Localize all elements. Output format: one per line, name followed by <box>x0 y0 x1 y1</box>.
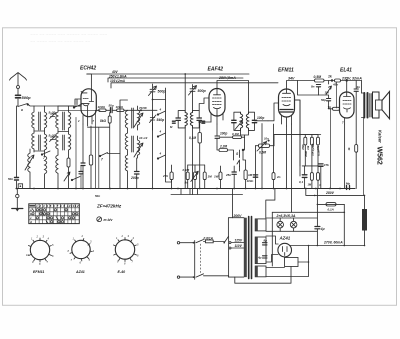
antenna <box>10 73 27 86</box>
filter cap 4u on output <box>315 227 320 229</box>
svg-text:500p: 500p <box>198 89 207 93</box>
G_BOTTOM <box>12 184 355 274</box>
secondary winding box 3 (heater) <box>255 266 266 277</box>
svg-text:4: 4 <box>159 108 162 112</box>
EFM11 target band <box>280 110 293 113</box>
tuning gang cap 1 (osc) 500p <box>150 84 155 130</box>
socket EFM11 circle <box>30 240 49 259</box>
osc coil winding 1 <box>125 110 127 133</box>
svg-text:350k: 350k <box>304 151 308 157</box>
svg-text:8μ: 8μ <box>264 239 268 243</box>
tube ECH42 envelope <box>81 89 96 117</box>
cap 4u left upper <box>263 243 268 245</box>
trimmer cap 5-20 lower <box>50 136 57 142</box>
coil T1 right winding <box>45 106 47 134</box>
svg-text:50n: 50n <box>95 194 100 198</box>
svg-text:~~ ~~~~ ~~~ ~~ ~~~ ~~~~ ~~: ~~ ~~~~ ~~~ ~~ ~~~ ~~~~ ~~ <box>30 39 90 44</box>
hum resistor box <box>285 258 299 267</box>
EAF42 bottom stubs <box>211 113 223 124</box>
EFM11 grids <box>282 98 291 102</box>
IF2 bottom wire <box>241 130 249 135</box>
svg-text:27k: 27k <box>162 174 168 178</box>
svg-text:m b/v: m b/v <box>104 218 114 222</box>
table column lines <box>36 204 76 224</box>
row tie wire <box>188 164 205 166</box>
EL41 anode <box>344 92 351 97</box>
small cap blob bottom <box>79 172 83 174</box>
svg-text:1M: 1M <box>325 91 330 95</box>
EL41 cathode wire down <box>344 124 346 189</box>
svg-text:350k: 350k <box>301 144 305 150</box>
svg-text:101V,2mA: 101V,2mA <box>110 79 126 83</box>
pot 0.5M diag <box>259 144 270 147</box>
input top rail <box>28 104 82 106</box>
top bus 101V <box>111 83 278 88</box>
tone switch S <box>237 156 240 167</box>
resistor 0.5M top row <box>315 79 325 82</box>
primary left side <box>228 237 230 278</box>
svg-text:EL41: EL41 <box>340 68 352 74</box>
antenna coil T1 primary <box>32 106 34 133</box>
socket AZ41 pin numbers <box>68 234 95 265</box>
IF2 coil b <box>246 112 248 130</box>
svg-text:p: p <box>319 184 322 187</box>
ballast resistor bar <box>362 209 367 231</box>
bleedthrough ghost text <box>30 32 107 44</box>
wire fuse down <box>343 204 345 245</box>
ground connector circle <box>16 189 18 195</box>
transformer core T1 <box>39 112 41 150</box>
ECH42 top stub to HT <box>87 74 92 89</box>
tube EAF42 envelope <box>209 89 225 117</box>
wire IF2 to EFM11 grid <box>255 120 269 122</box>
svg-text:50n: 50n <box>8 177 13 181</box>
tube EL41 envelope <box>340 92 355 118</box>
svg-text:100p: 100p <box>220 132 227 136</box>
EFM11 cathode <box>283 105 290 106</box>
svg-text:1k: 1k <box>347 147 351 151</box>
lamp feed vertical <box>271 212 273 266</box>
trimmer cap 5-20 upper <box>50 113 57 119</box>
svg-text:31k: 31k <box>306 145 310 150</box>
switch contact 7 mid <box>100 153 120 157</box>
band switch contact 4b <box>158 133 166 137</box>
G_TOPLEFT <box>8 66 278 190</box>
bus end contact box <box>18 184 22 189</box>
switch contact b <box>74 104 82 108</box>
svg-text:5÷20: 5÷20 <box>49 111 56 115</box>
G_OSC <box>120 73 206 194</box>
socket E-40 circle <box>115 240 134 259</box>
resistor 1M vertical right <box>244 170 247 180</box>
AZ41 left wire from HV bottom <box>266 255 278 263</box>
svg-text:4: 4 <box>159 130 162 134</box>
EFM11 top stub <box>287 81 315 90</box>
mains cord bottom <box>180 276 195 278</box>
svg-text:8n: 8n <box>311 85 315 89</box>
heater winding wires <box>266 262 309 277</box>
svg-text:270V, 60mA: 270V, 60mA <box>323 241 343 245</box>
heater return loop <box>235 267 291 284</box>
coil block 2 winding A <box>56 106 58 133</box>
speaker magnet <box>376 100 383 110</box>
svg-text:2n: 2n <box>276 175 281 179</box>
transformer connecting wires <box>362 93 365 118</box>
cap 8n <box>316 85 320 87</box>
ECH42 cathode resistor <box>89 155 92 165</box>
svg-text:0,1A: 0,1A <box>328 207 334 211</box>
ECH42 grid squiggle <box>83 98 88 100</box>
wire filter cap <box>316 189 318 246</box>
svg-text:5÷20: 5÷20 <box>49 134 56 138</box>
secondary bus <box>171 189 243 195</box>
wire ballast top <box>364 195 366 209</box>
G_RIGHT <box>247 68 390 213</box>
AZ41 left wire from HV top <box>266 236 278 244</box>
svg-text:d: d <box>30 220 32 224</box>
AZ41 cathode output wire 270V <box>290 245 365 247</box>
G_POWER <box>177 182 367 284</box>
svg-text:4μ: 4μ <box>257 256 262 260</box>
svg-text:10n: 10n <box>264 137 269 141</box>
tap 110V <box>231 247 244 249</box>
wire top row <box>324 80 335 82</box>
svg-text:5n: 5n <box>185 181 189 185</box>
svg-text:1M: 1M <box>208 175 213 179</box>
svg-text:100p: 100p <box>257 116 264 120</box>
svg-text:~~~ ~~ ~~~~ ~~~ ~~~~~ ~~ ~~~~: ~~~ ~~ ~~~~ ~~~ ~~~~~ ~~ ~~~~ ~~~ <box>30 32 107 37</box>
svg-text:50p: 50p <box>109 104 114 108</box>
switch a <box>18 104 28 107</box>
svg-text:Kaiser: Kaiser <box>377 130 382 143</box>
wire antenna to cap <box>17 89 19 95</box>
switch contact 7 <box>42 151 50 155</box>
svg-text:7: 7 <box>101 158 103 162</box>
svg-text:1 2 3 4 5 6 7 8 9 101112: 1 2 3 4 5 6 7 8 9 101112 <box>36 204 79 208</box>
IF2 right unit frame <box>249 112 255 130</box>
IF2 left unit frame <box>234 112 241 130</box>
IF1 left cap <box>176 118 180 120</box>
osc coil winding 2 <box>125 133 127 155</box>
svg-text:125V: 125V <box>235 239 243 243</box>
cathode resistor pill on 356 line <box>355 145 358 153</box>
wire ballast to 270V <box>364 231 366 246</box>
svg-text:34V: 34V <box>288 77 295 81</box>
IF1 M mark right <box>202 121 205 123</box>
cap 50p grid row <box>110 108 112 113</box>
EL41 cathode <box>344 108 351 112</box>
svg-text:Mp: Mp <box>346 182 350 186</box>
speaker frame <box>373 92 380 118</box>
svg-text:100Ω: 100Ω <box>116 105 124 109</box>
svg-text:EFM11: EFM11 <box>278 68 294 74</box>
EAF42 left stub <box>199 98 209 111</box>
grid leak vertical <box>330 109 332 189</box>
svg-text:EAF42: EAF42 <box>208 67 224 73</box>
svg-text:60k: 60k <box>316 145 320 150</box>
resistor 1k top <box>335 79 341 82</box>
svg-text:250V,5mA: 250V,5mA <box>218 76 236 80</box>
ECH42 anode line <box>89 89 93 102</box>
antenna coil T1 secondary <box>32 133 34 152</box>
svg-text:4μ: 4μ <box>320 227 325 231</box>
top bus 40V <box>87 73 249 75</box>
heater jog wire from bus <box>266 189 275 219</box>
svg-text:0,5M: 0,5M <box>259 151 266 155</box>
coil T1 right winding 2 <box>45 134 47 156</box>
junction dots power <box>364 245 366 247</box>
socket E-40 pins <box>114 238 137 262</box>
resistor pill D <box>219 172 222 180</box>
IF1 primary feed <box>184 74 186 111</box>
lamp circuit bottom wire <box>266 230 317 232</box>
speaker horn <box>382 92 390 119</box>
wire 200V tap to bus <box>232 195 234 218</box>
svg-text:280V: 280V <box>325 191 335 195</box>
resistor 350k <box>304 137 307 145</box>
cap 25n vertical <box>232 172 236 174</box>
EFM11 bottom stubs <box>282 116 292 127</box>
osc coil winding 3 <box>125 155 127 189</box>
IF1 coil b <box>190 111 192 128</box>
svg-text:70/48: 70/48 <box>139 106 147 110</box>
HT wire down to transformer <box>361 81 363 94</box>
secondary winding box 1 (6.3V) <box>255 219 266 231</box>
wire fuse to voltage switch <box>213 241 224 243</box>
svg-text:47k: 47k <box>323 163 329 167</box>
top bus 250V <box>108 78 243 82</box>
capacitor left column bottom <box>15 178 19 181</box>
main ground bus <box>16 188 355 190</box>
svg-text:2×6,3V/0,3A: 2×6,3V/0,3A <box>276 214 296 218</box>
svg-text:0,1: 0,1 <box>299 180 304 184</box>
svg-text:7: 7 <box>43 156 45 160</box>
socket E-40 pin numbers <box>116 234 139 266</box>
lamp circuit top wire <box>266 217 317 219</box>
ECH42 cathode network cap <box>81 163 85 166</box>
svg-text:10÷13: 10÷13 <box>139 136 148 140</box>
voltage selector switch <box>224 237 228 243</box>
osc trimmer arrow 2 <box>134 143 143 157</box>
fuse 0,1A wire <box>317 203 344 205</box>
cap 4u left lower <box>263 256 268 258</box>
socket AZ41 circle <box>72 240 90 258</box>
ground earth symbol <box>16 198 18 209</box>
pill 2n EFM <box>272 173 275 180</box>
resistor 1k grid EL41 <box>333 107 340 110</box>
cap 100n on wire <box>253 175 257 177</box>
switch coupling dashed link <box>200 244 202 273</box>
band switch contact 4c <box>158 155 166 159</box>
AZ41 anode plates <box>283 247 288 256</box>
small pot arrow bottom <box>64 172 70 181</box>
lower pill 0.1M <box>317 173 320 181</box>
rectifier AZ41 circle <box>278 243 292 257</box>
wire x291.5 heater <box>291 124 293 212</box>
svg-text:3n: 3n <box>357 85 361 89</box>
table row lines <box>29 208 80 220</box>
fuse 0,6/1A <box>205 240 213 243</box>
IF1 right unit frame <box>193 111 200 128</box>
wire 280V line <box>306 189 365 196</box>
long vertical right of coils <box>75 117 77 188</box>
small coupling cap on grid wire <box>75 100 77 105</box>
svg-text:100Ω: 100Ω <box>98 105 106 109</box>
svg-text:0,5M: 0,5M <box>314 75 322 79</box>
coil block 2 winding B <box>56 133 58 155</box>
AVC vertical wires <box>96 110 99 188</box>
ECH42 cathode line <box>87 106 89 116</box>
EFM11 cathode wire <box>286 126 288 189</box>
wire to ground bus <box>16 181 18 189</box>
ECH42 grid row right: resistor 100ohm <box>99 109 106 112</box>
variable coil L3 <box>28 149 30 189</box>
band switch contact 4a <box>158 111 166 115</box>
socket EFM11 pins <box>29 238 52 262</box>
coil block tie wires <box>34 131 69 151</box>
IF1 right down wire <box>192 128 194 195</box>
svg-text:2,2M: 2,2M <box>219 145 227 149</box>
EAF42 anode <box>214 89 221 95</box>
resistor 2.2M <box>219 149 228 152</box>
svg-text:540p: 540p <box>157 118 165 122</box>
svg-text:0,6/1A: 0,6/1A <box>204 236 214 240</box>
resistor 0,1M below IF2 <box>233 136 242 139</box>
wire cap down to input node <box>17 99 19 177</box>
junction dot IF2 <box>242 149 244 151</box>
osc coil winding right 2 <box>138 136 140 158</box>
bus junction dots <box>16 188 348 190</box>
wire 0.5M to bus <box>256 135 275 189</box>
ECH42 cathode cup <box>83 105 89 106</box>
trimmer 540p <box>150 115 157 123</box>
vertical wire x262 <box>261 124 263 189</box>
IF1 coil a <box>185 111 187 128</box>
tube EFM11 envelope <box>279 89 295 117</box>
cap 47k branch <box>319 164 323 166</box>
transformer core T2 <box>63 112 65 150</box>
cluster mid wire <box>302 165 323 167</box>
mains cord top <box>180 242 195 244</box>
antenna connector circle <box>17 86 20 89</box>
svg-text:110V: 110V <box>235 244 243 248</box>
lower pill 1M <box>310 173 313 181</box>
svg-text:50p: 50p <box>321 98 326 102</box>
EAF42 anode loop to HT <box>217 81 249 113</box>
svg-text:E-40: E-40 <box>118 270 126 274</box>
osc coil winding right 1 <box>138 106 140 130</box>
cap 200p bottom <box>135 172 140 175</box>
pot pill B with arrow <box>194 172 197 180</box>
resistor 27k <box>170 172 173 180</box>
svg-text:500p: 500p <box>22 95 32 100</box>
svg-text:0,1M: 0,1M <box>232 132 239 136</box>
coil T1 right winding 3 <box>45 156 47 189</box>
svg-text:100n: 100n <box>247 179 254 183</box>
resistor 0.1M row pill A <box>186 172 189 180</box>
tap 125V <box>231 242 244 244</box>
cap 0.1 left of cluster <box>302 175 307 178</box>
secondary winding box 2 (HV) <box>255 237 266 264</box>
svg-text:0,25M: 0,25M <box>311 143 315 151</box>
wire speaker bottom <box>363 118 365 196</box>
svg-text:200p: 200p <box>130 176 139 180</box>
svg-text:45n: 45n <box>332 83 338 87</box>
capacitor 500p antenna <box>16 95 21 98</box>
switch table frame <box>29 204 80 224</box>
IF2 coil a <box>241 112 243 130</box>
pilot lamp 1 <box>277 221 284 228</box>
socket AZ41 pins <box>70 239 92 262</box>
pilot lamp 2 <box>290 221 297 228</box>
IF1 M mark left <box>172 121 175 123</box>
feedback box wire <box>298 81 319 96</box>
ECH42 bottom stubs <box>83 116 92 127</box>
primary bottom wire <box>229 276 244 278</box>
osc trimmer arrow 1 <box>134 113 143 127</box>
svg-text:8kΩ: 8kΩ <box>100 119 107 123</box>
svg-text:W562: W562 <box>375 147 382 165</box>
svg-text:200V: 200V <box>233 214 243 218</box>
EFM11 anode <box>283 89 291 93</box>
EAF42 cathode <box>214 108 221 117</box>
ECH42 screen <box>82 102 90 104</box>
fuse 0,1A <box>326 203 336 206</box>
resistor 0.1M vertical <box>198 133 201 144</box>
coil block 3 winding A <box>69 106 71 134</box>
IF1 left unit frame <box>178 111 185 128</box>
output transformer secondary bar <box>367 93 369 118</box>
svg-text:0,1M: 0,1M <box>189 136 196 140</box>
resistor in col3 <box>67 158 70 167</box>
mains switch bottom pole <box>196 274 229 277</box>
wire grid network <box>200 121 211 123</box>
table circle marks <box>32 209 78 224</box>
osc core <box>132 108 134 152</box>
svg-text:AZ41: AZ41 <box>75 270 85 274</box>
wire grid row <box>96 109 127 111</box>
grid row wire to osc <box>128 109 158 111</box>
cap 50p <box>327 99 331 101</box>
IF1 right cap <box>197 118 201 120</box>
svg-text:EFM11: EFM11 <box>33 270 44 274</box>
resistor 1M pill C <box>203 172 206 180</box>
mains switch top pole <box>196 240 205 243</box>
tuning gang cap 2 (RF) 500p <box>190 85 195 111</box>
resistor 8k <box>108 116 111 123</box>
table header dash <box>30 205 35 207</box>
EL41 grids <box>343 101 351 105</box>
osc block left rail <box>120 100 128 189</box>
svg-text:0,1M: 0,1M <box>183 168 190 172</box>
transformer core lines <box>249 217 252 279</box>
EFM11 left stub grid cap <box>268 103 279 121</box>
ECH42 crossing wire <box>58 109 100 111</box>
socket EFM11 pin numbers <box>26 235 54 267</box>
output transformer primary bar <box>363 93 365 118</box>
primary winding bar <box>244 218 247 277</box>
grid feed wire to ECH42 <box>58 105 81 107</box>
circled wave symbol <box>97 217 102 222</box>
resistor 31k <box>310 137 313 145</box>
ECH42 left stub <box>75 98 81 100</box>
IF2 trimmer arrow <box>235 121 243 130</box>
switch rail <box>166 88 172 182</box>
mains plug bracket <box>194 241 196 280</box>
svg-text:ZF=472kHz: ZF=472kHz <box>96 204 122 209</box>
ECH42 grid dash <box>81 91 87 93</box>
svg-text:ECH42: ECH42 <box>80 66 96 72</box>
